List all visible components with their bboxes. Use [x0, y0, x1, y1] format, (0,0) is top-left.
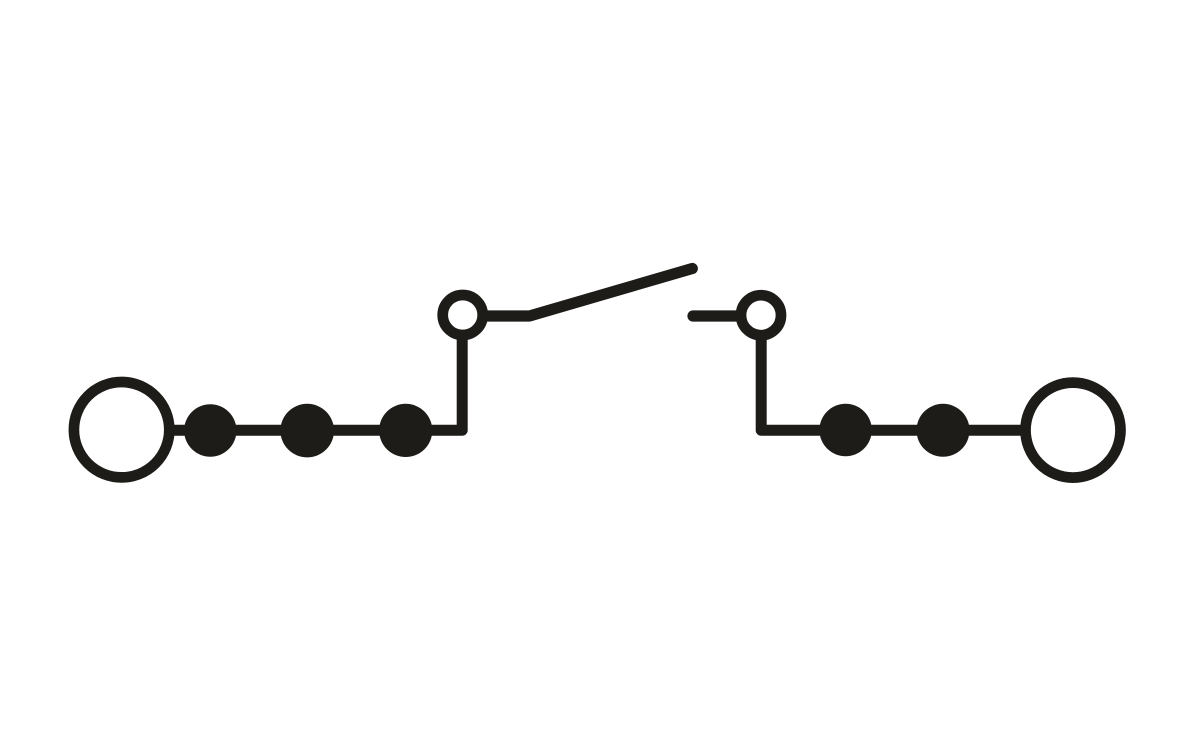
wire left horizontal run and riser to hinge	[170, 330, 462, 430]
junction dot 1	[184, 404, 236, 456]
junction dot 5	[917, 404, 970, 457]
right screw terminal circle	[1026, 383, 1121, 478]
wire right riser and horizontal run to right terminal	[761, 330, 1026, 430]
hinge contact right (open circle)	[741, 295, 781, 335]
fixed contact stub right	[693, 310, 740, 321]
hinge contact left (open circle)	[443, 295, 483, 335]
junction dot 2	[280, 404, 334, 458]
left screw terminal circle	[74, 382, 169, 477]
junction dot 4	[819, 404, 871, 456]
switch blade (open knife lever)	[485, 269, 693, 317]
junction dot 3	[379, 404, 432, 457]
